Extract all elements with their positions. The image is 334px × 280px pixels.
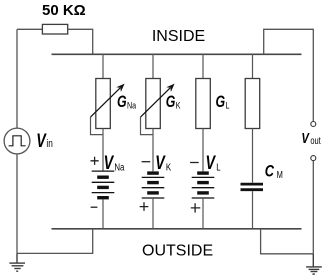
wire branch 4 top drop — [252, 54, 254, 79]
svg-text:V: V — [36, 130, 47, 151]
wire branch 1 top drop — [102, 54, 104, 79]
plus sign of V_Na — [91, 157, 99, 165]
terminal Vout bottom — [311, 156, 316, 161]
minus sign of V_Na — [91, 206, 98, 208]
svg-text:INSIDE: INSIDE — [152, 28, 205, 45]
svg-text:M: M — [277, 169, 283, 180]
rheostat G_Na body — [96, 79, 111, 129]
label V_K — [155, 152, 172, 173]
svg-text:V: V — [206, 152, 217, 173]
label G_L — [216, 93, 230, 111]
svg-text:V: V — [155, 152, 166, 173]
svg-text:G: G — [216, 93, 226, 111]
wire branch 3 top drop — [202, 54, 204, 79]
wire bottom-left horizontal to OUTSIDE riser — [17, 229, 93, 254]
terminal Vout top — [311, 122, 316, 127]
wire left rail upper (Vin top to R1) — [16, 29, 18, 128]
minus sign of V_K — [142, 161, 151, 163]
svg-text:K: K — [166, 161, 172, 172]
source Vin (pulse generator) — [4, 128, 30, 154]
label Vout — [301, 129, 321, 146]
wire top-left horizontal from Vin rail to R1 — [17, 28, 42, 30]
label G_K — [166, 93, 181, 111]
plus sign of V_K — [140, 202, 149, 211]
series resistor body on C_M branch — [245, 79, 260, 129]
wire OUTSIDE bus dropper to Vout ground — [261, 229, 314, 254]
wire branch 2 bottom — [152, 198, 154, 229]
node OUTSIDE bus — [52, 228, 302, 230]
label Vin — [36, 130, 53, 151]
svg-text:in: in — [46, 138, 52, 150]
wire branch 2 middle — [152, 129, 154, 172]
svg-text:V: V — [104, 152, 115, 173]
wire left rail lower (Vin bottom to ground corner) — [16, 154, 18, 254]
wire branch 3 bottom — [202, 198, 204, 229]
ground right — [306, 254, 322, 274]
svg-text:50 KΩ: 50 KΩ — [42, 2, 86, 19]
node INSIDE bus — [52, 53, 302, 55]
svg-text:C: C — [265, 162, 275, 181]
svg-text:K: K — [176, 100, 181, 111]
svg-text:Na: Na — [127, 100, 136, 111]
minus sign of V_L — [190, 162, 199, 164]
label C_M — [265, 162, 283, 181]
wire branch 1 bottom — [102, 199, 104, 228]
plus sign of V_L — [191, 203, 201, 212]
svg-text:L: L — [225, 100, 229, 111]
battery V_L — [192, 173, 215, 198]
label V_L — [206, 152, 221, 173]
svg-text:out: out — [310, 135, 321, 146]
wire branch 4 bottom — [252, 191, 254, 229]
wire from R1 right to INSIDE bus — [68, 29, 93, 54]
rheostat G_K arrow — [141, 84, 175, 135]
svg-text:Na: Na — [114, 161, 125, 172]
wire Vout bottom to ground right — [312, 161, 314, 254]
wire branch 4 middle — [252, 129, 254, 183]
resistor G_L body — [196, 79, 211, 129]
ground left — [9, 253, 25, 271]
capacitor C_M — [241, 184, 264, 190]
wire branch 2 top drop — [152, 54, 154, 79]
wire INSIDE bus riser to Vout top — [264, 29, 314, 121]
label G_Na — [117, 93, 136, 111]
rheostat G_Na arrow — [91, 84, 125, 135]
rheostat G_K body — [146, 79, 161, 129]
svg-text:V: V — [301, 129, 309, 146]
svg-text:G: G — [117, 93, 127, 111]
wire branch 3 middle — [202, 129, 204, 172]
svg-text:OUTSIDE: OUTSIDE — [142, 242, 213, 259]
battery V_K — [142, 173, 165, 198]
svg-text:L: L — [216, 161, 220, 172]
resistor 50 KΩ — [42, 24, 67, 34]
battery V_Na — [92, 171, 115, 198]
wire branch 1 middle — [102, 129, 104, 172]
svg-text:G: G — [166, 93, 176, 111]
label V_Na — [104, 152, 125, 173]
